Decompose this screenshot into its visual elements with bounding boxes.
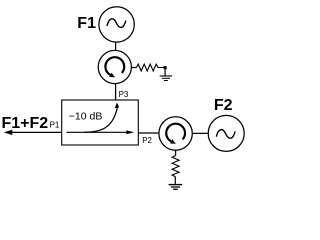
svg-text:P2: P2 xyxy=(142,136,152,145)
svg-text:−10 dB: −10 dB xyxy=(69,110,103,122)
svg-text:F1: F1 xyxy=(77,15,96,32)
svg-text:F2: F2 xyxy=(214,97,233,114)
svg-text:F1+F2: F1+F2 xyxy=(2,115,49,132)
svg-text:P1: P1 xyxy=(50,121,60,130)
svg-text:P3: P3 xyxy=(119,90,129,99)
